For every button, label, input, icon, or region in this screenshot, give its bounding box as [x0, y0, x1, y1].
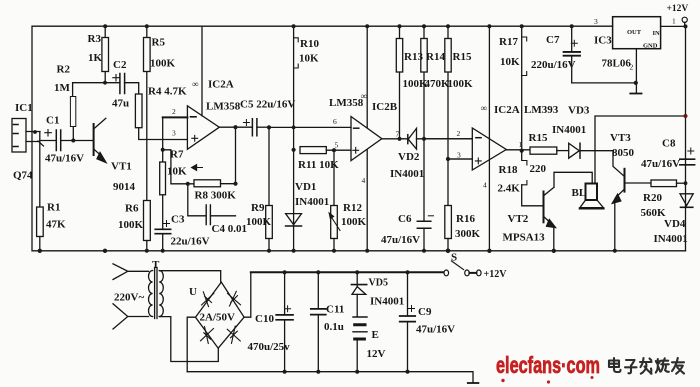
svg-text:47K: 47K [46, 219, 66, 231]
svg-text:VD4: VD4 [664, 218, 686, 230]
svg-text:LM393: LM393 [524, 104, 559, 116]
svg-text:47u: 47u [112, 98, 129, 110]
svg-text:6: 6 [333, 117, 337, 126]
svg-text:T: T [152, 259, 160, 271]
svg-text:12V: 12V [367, 348, 386, 360]
svg-text:IN4001: IN4001 [654, 233, 688, 245]
svg-text:BL: BL [572, 187, 587, 199]
svg-text:22u/16V: 22u/16V [171, 236, 210, 248]
svg-text:1: 1 [519, 140, 523, 149]
svg-text:R13: R13 [404, 51, 423, 63]
svg-text:R5: R5 [152, 37, 166, 49]
svg-text:OUT: OUT [627, 29, 642, 36]
svg-text:LM358: LM358 [206, 101, 241, 113]
svg-text:R1: R1 [47, 202, 60, 214]
svg-text:C7: C7 [546, 34, 560, 46]
svg-text:IC3: IC3 [594, 35, 612, 47]
svg-text:R10: R10 [300, 38, 319, 50]
svg-text:560K: 560K [641, 207, 667, 219]
svg-text:IN4001: IN4001 [295, 196, 329, 208]
svg-text:C6: C6 [398, 213, 412, 225]
svg-text:IC2A: IC2A [208, 79, 234, 91]
svg-text:R17: R17 [499, 36, 518, 48]
svg-text:100K: 100K [150, 58, 176, 70]
svg-text:+12V: +12V [484, 269, 508, 280]
svg-text:VD3: VD3 [568, 105, 590, 117]
svg-text:C8: C8 [662, 138, 676, 150]
svg-text:4: 4 [362, 176, 366, 185]
svg-text:100K: 100K [341, 216, 367, 228]
svg-text:78L06: 78L06 [602, 58, 632, 70]
svg-text:VD2: VD2 [398, 151, 420, 163]
svg-text:∞: ∞ [481, 103, 487, 113]
svg-text:E: E [372, 329, 379, 341]
svg-text:R7: R7 [170, 149, 184, 161]
svg-text:300K: 300K [455, 228, 481, 240]
svg-text:220V~: 220V~ [114, 292, 144, 304]
svg-text:R9: R9 [251, 202, 265, 214]
svg-text:R6: R6 [125, 203, 139, 215]
svg-text:VT1: VT1 [111, 161, 132, 173]
svg-text:100K: 100K [448, 78, 474, 90]
svg-text:470u/25v: 470u/25v [248, 341, 291, 353]
svg-text:47u/16V: 47u/16V [45, 153, 84, 165]
svg-text:R16: R16 [456, 213, 475, 225]
svg-text:IN: IN [653, 30, 661, 37]
svg-text:2: 2 [172, 107, 176, 116]
svg-text:R15: R15 [529, 132, 548, 144]
svg-text:R20: R20 [643, 192, 662, 204]
svg-text:7: 7 [396, 130, 400, 139]
svg-text:∞: ∞ [361, 91, 367, 101]
svg-text:100K: 100K [246, 216, 272, 228]
svg-text:R15: R15 [453, 51, 472, 63]
svg-text:S: S [451, 252, 457, 264]
svg-text:R4 4.7K: R4 4.7K [148, 86, 187, 98]
svg-text:1K: 1K [88, 52, 103, 64]
svg-text:9014: 9014 [113, 181, 136, 193]
svg-text:U: U [189, 286, 197, 298]
svg-text:elecfans·com: elecfans·com [496, 352, 600, 378]
svg-text:VT3: VT3 [610, 132, 631, 144]
svg-text:8050: 8050 [612, 147, 635, 159]
svg-text:IN4001: IN4001 [552, 124, 586, 136]
svg-text:VD5: VD5 [369, 278, 388, 289]
svg-text:C2: C2 [113, 59, 127, 71]
svg-text:C9: C9 [418, 306, 432, 318]
svg-text:R3: R3 [88, 33, 102, 45]
svg-text:220u/16V: 220u/16V [531, 59, 576, 71]
svg-text:470K: 470K [425, 78, 451, 90]
svg-text:R12: R12 [343, 202, 362, 214]
svg-text:10K: 10K [299, 53, 319, 65]
svg-text:Q74: Q74 [13, 170, 33, 182]
svg-text:IC2B: IC2B [372, 101, 398, 113]
svg-text:+12V: +12V [667, 4, 689, 14]
svg-text:3: 3 [457, 151, 461, 160]
svg-text:1: 1 [672, 17, 676, 26]
svg-text:10K: 10K [167, 166, 187, 178]
svg-text:R2: R2 [57, 64, 71, 76]
svg-text:2A/50V: 2A/50V [200, 312, 236, 324]
svg-text:47u/16V: 47u/16V [381, 234, 420, 246]
svg-text:LM358: LM358 [329, 97, 364, 109]
svg-text:3: 3 [594, 17, 598, 26]
svg-text:4: 4 [483, 181, 487, 190]
svg-text:C3: C3 [171, 214, 185, 226]
svg-text:R18: R18 [499, 164, 518, 176]
svg-text:IN4001: IN4001 [390, 168, 424, 180]
svg-text:47u/16V: 47u/16V [641, 158, 680, 170]
svg-text:MPSA13: MPSA13 [503, 232, 546, 244]
svg-text:GND: GND [643, 43, 658, 50]
svg-text:5: 5 [335, 141, 339, 150]
svg-text:47u/16V: 47u/16V [416, 324, 455, 336]
svg-text:IN4001: IN4001 [370, 296, 404, 308]
svg-text:1M: 1M [54, 82, 71, 94]
svg-text:C11: C11 [326, 304, 344, 316]
svg-text:∞: ∞ [192, 79, 198, 89]
svg-text:2: 2 [630, 63, 634, 72]
svg-text:C4 0.01: C4 0.01 [212, 223, 247, 235]
svg-text:0.1u: 0.1u [324, 321, 344, 333]
svg-text:220: 220 [530, 163, 547, 175]
svg-text:R14: R14 [426, 51, 445, 63]
svg-text:C1: C1 [46, 115, 59, 127]
svg-text:IC2A: IC2A [494, 104, 520, 116]
svg-text:C10: C10 [255, 313, 274, 325]
svg-text:IC1: IC1 [15, 102, 33, 114]
svg-text:VT2: VT2 [508, 213, 529, 225]
svg-text:2: 2 [457, 129, 461, 138]
svg-text:R8 300K: R8 300K [195, 190, 237, 202]
svg-text:C5 22u/16V: C5 22u/16V [240, 99, 295, 111]
svg-text:R11 10K: R11 10K [298, 159, 339, 171]
svg-text:3: 3 [172, 129, 176, 138]
svg-text:2.4K: 2.4K [498, 183, 521, 195]
svg-text:VD1: VD1 [295, 181, 316, 193]
svg-text:100K: 100K [118, 219, 144, 231]
svg-text:10K: 10K [500, 56, 520, 68]
